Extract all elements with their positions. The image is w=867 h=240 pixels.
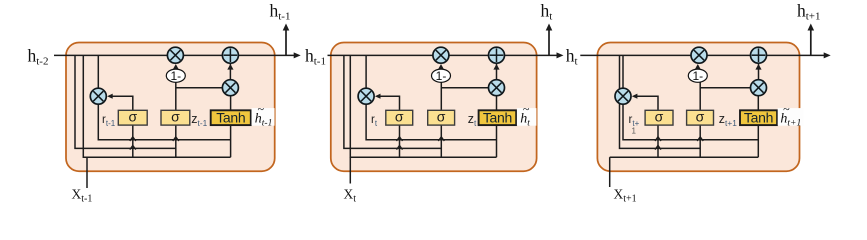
svg-text:σ: σ — [171, 108, 180, 124]
svg-text:Tanh: Tanh — [744, 110, 773, 126]
svg-text:1: 1 — [632, 127, 637, 136]
svg-text:ht: ht — [566, 46, 578, 68]
svg-text:σ: σ — [128, 108, 137, 124]
svg-text:1-: 1- — [692, 69, 703, 83]
svg-text:ht: ht — [541, 1, 553, 23]
svg-text:σ: σ — [655, 108, 664, 124]
svg-text:~: ~ — [523, 102, 530, 116]
svg-text:ht-2: ht-2 — [28, 46, 49, 68]
svg-text:σ: σ — [395, 108, 404, 124]
svg-text:ht+1: ht+1 — [797, 1, 821, 23]
svg-text:σ: σ — [437, 108, 446, 124]
svg-text:Tanh: Tanh — [216, 110, 245, 126]
svg-text:ht-1: ht-1 — [305, 46, 326, 68]
svg-text:~: ~ — [783, 102, 790, 116]
svg-text:ht-1: ht-1 — [270, 1, 291, 23]
svg-text:Xt: Xt — [344, 187, 357, 205]
svg-text:~: ~ — [257, 102, 264, 116]
svg-text:Xt-1: Xt-1 — [72, 187, 93, 205]
svg-text:1-: 1- — [436, 69, 447, 83]
svg-text:1-: 1- — [170, 69, 181, 83]
svg-text:Tanh: Tanh — [483, 110, 512, 126]
svg-text:Xt+1: Xt+1 — [614, 187, 637, 205]
svg-text:σ: σ — [696, 108, 705, 124]
